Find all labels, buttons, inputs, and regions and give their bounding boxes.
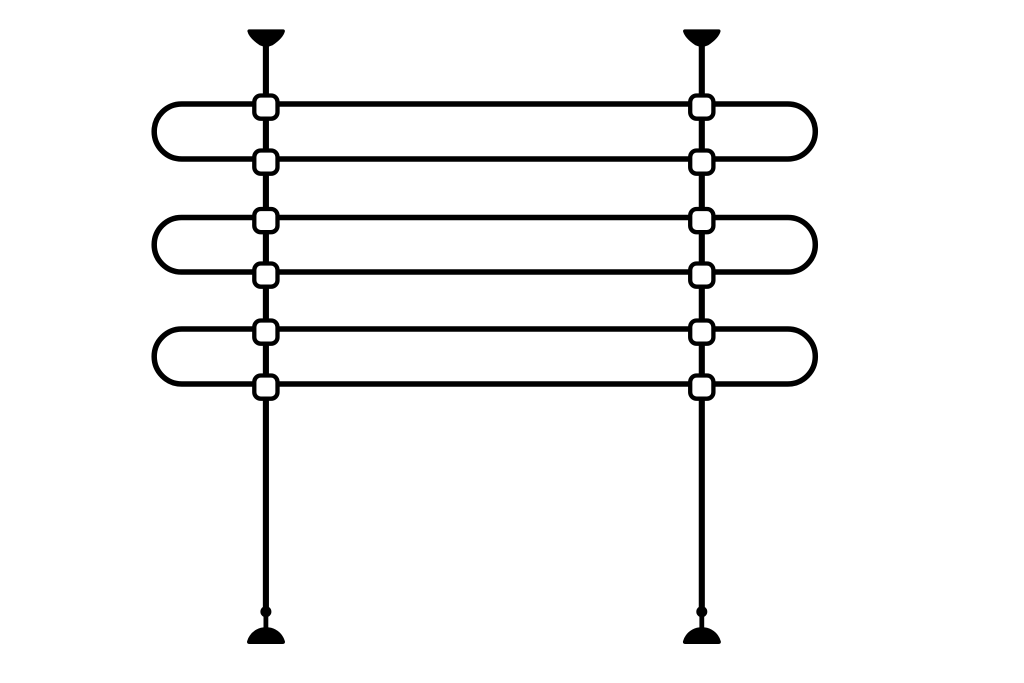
crossbar 1 (top stadium tube) bbox=[154, 104, 815, 159]
clamp L4 (left pole, bar2 bottom rail) bbox=[254, 264, 277, 287]
clamp R4 (right pole, bar2 bottom rail) bbox=[690, 264, 713, 287]
clamp L2 (left pole, bar1 bottom rail) bbox=[254, 151, 277, 174]
clamp L6 (left pole, bar3 bottom rail) bbox=[254, 376, 277, 399]
right pole bbox=[699, 40, 705, 612]
right top cone mount bbox=[683, 29, 721, 46]
left foot dome bbox=[247, 627, 285, 644]
left pole bbox=[263, 40, 269, 612]
right foot stem bbox=[699, 612, 704, 632]
clamp R5 (right pole, bar3 top rail) bbox=[690, 321, 713, 344]
left foot stem bbox=[263, 612, 268, 632]
clamp R6 (right pole, bar3 bottom rail) bbox=[690, 376, 713, 399]
clamp L3 (left pole, bar2 top rail) bbox=[254, 209, 277, 232]
left foot ball bbox=[260, 606, 271, 617]
clamp R1 (right pole, bar1 top rail) bbox=[690, 96, 713, 119]
right foot ball bbox=[696, 606, 707, 617]
clamp L1 (left pole, bar1 top rail) bbox=[254, 96, 277, 119]
clamp R3 (right pole, bar2 top rail) bbox=[690, 209, 713, 232]
clamp L5 (left pole, bar3 top rail) bbox=[254, 321, 277, 344]
right foot dome bbox=[683, 627, 721, 644]
left top cone mount bbox=[247, 29, 285, 46]
clamp R2 (right pole, bar1 bottom rail) bbox=[690, 151, 713, 174]
crossbar 3 (bottom stadium tube) bbox=[154, 329, 815, 384]
crossbar 2 (middle stadium tube) bbox=[154, 218, 815, 273]
